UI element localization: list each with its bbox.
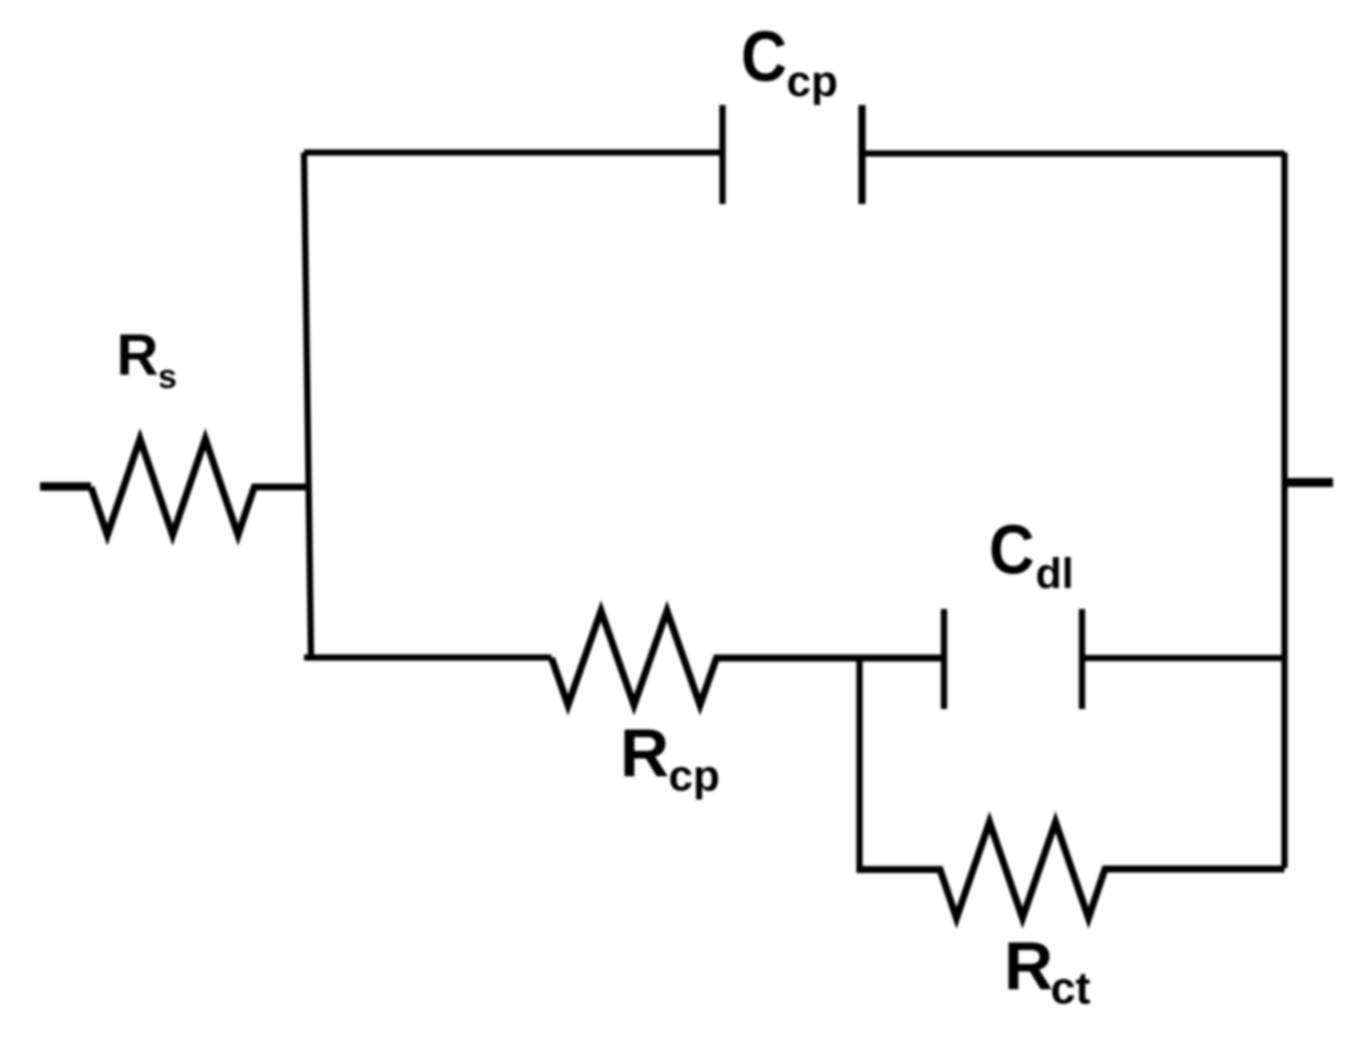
svg-text:dl: dl bbox=[1036, 550, 1074, 598]
svg-text:R: R bbox=[620, 715, 669, 791]
svg-text:R: R bbox=[117, 323, 159, 388]
svg-text:R: R bbox=[1004, 928, 1053, 1004]
svg-text:cp: cp bbox=[787, 57, 838, 106]
svg-text:C: C bbox=[741, 18, 787, 97]
svg-text:C: C bbox=[989, 511, 1035, 589]
svg-text:cp: cp bbox=[669, 752, 720, 801]
svg-text:ct: ct bbox=[1051, 963, 1091, 1014]
svg-text:s: s bbox=[158, 358, 177, 396]
